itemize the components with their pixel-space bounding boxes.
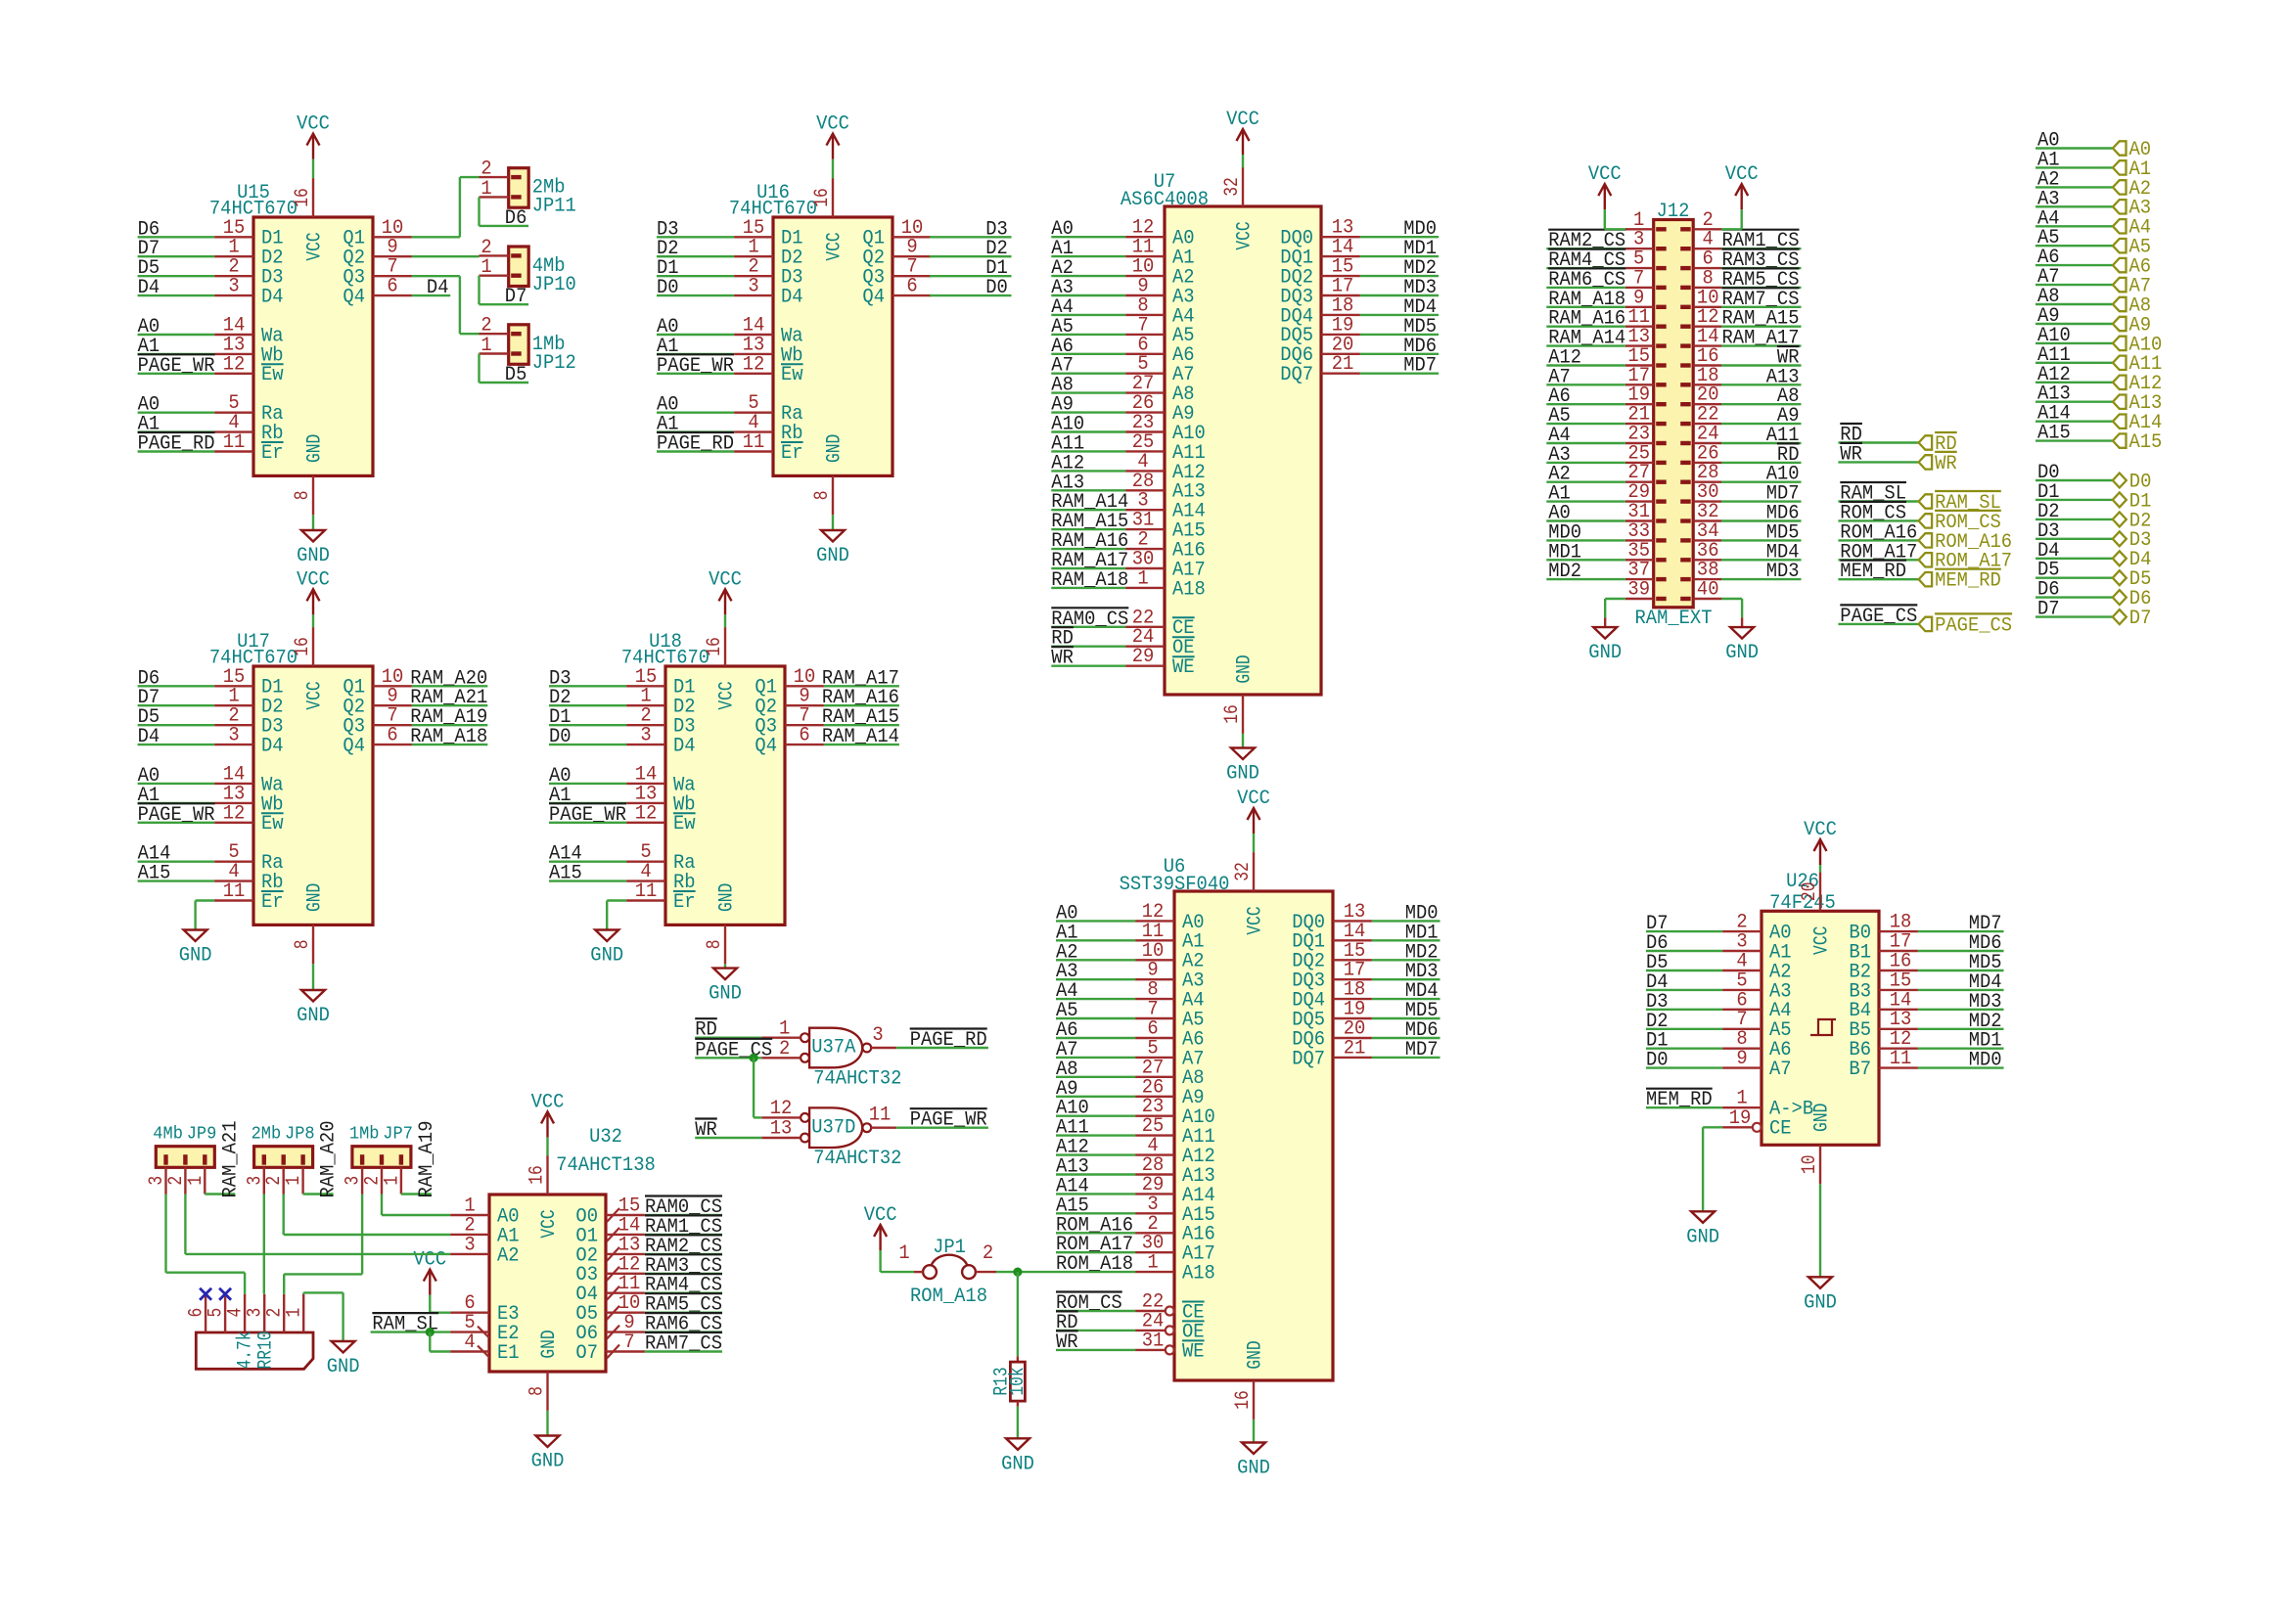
label PAGE_WR	[138, 354, 215, 378]
svg-text:D5: D5	[505, 364, 527, 386]
svg-text:13: 13	[770, 1118, 793, 1141]
svg-text:VCC: VCC	[538, 1209, 561, 1238]
svg-text:Er: Er	[673, 891, 696, 914]
label MD6	[1403, 336, 1437, 358]
svg-text:11: 11	[223, 880, 246, 903]
wire PAGE_WR to U16.Ew	[657, 373, 734, 375]
wire PAGE_WR to U17.Ew	[138, 822, 215, 824]
svg-text:3: 3	[640, 725, 651, 747]
wire A14 to U17.Ra	[138, 861, 215, 863]
svg-text:1: 1	[283, 1176, 305, 1186]
register file U17 74HCT670	[209, 627, 412, 964]
label MD2	[1403, 257, 1437, 280]
junction ROM_A18 node	[1013, 1268, 1022, 1277]
wire D4 to U26.A3	[1646, 989, 1722, 991]
svg-text:11: 11	[869, 1105, 892, 1127]
wire U6.DQ0 MD0	[1372, 920, 1441, 922]
wire D3 to U26.A4	[1646, 1009, 1722, 1011]
svg-text:RAM_A21: RAM_A21	[219, 1121, 242, 1198]
hierarchical label RAM_SL	[1919, 491, 2001, 515]
svg-text:21: 21	[1344, 1037, 1366, 1060]
svg-text:VCC: VCC	[303, 681, 326, 709]
label A6	[1051, 336, 1074, 358]
wire U15.Q4 D4	[412, 294, 450, 296]
label PAGE_RD	[657, 432, 734, 456]
wire U26.B0 MD7	[1918, 930, 2004, 932]
wire RD to U6.OE	[1056, 1330, 1135, 1331]
label RAM5_CS	[645, 1293, 722, 1317]
svg-text:Q4: Q4	[755, 736, 777, 758]
wire RAM4_CS to J12 pin 5	[1546, 267, 1625, 269]
svg-text:U37D: U37D	[811, 1116, 855, 1139]
svg-text:O7: O7	[575, 1342, 598, 1365]
label A14 with wire	[2036, 403, 2113, 426]
label PAGE_RD	[910, 1029, 987, 1053]
label D3	[985, 218, 1008, 241]
power VCC at U6 pin 32	[1237, 788, 1270, 891]
wire U7.DQ7 MD7	[1360, 373, 1439, 375]
wire A14 to U18.Ra	[549, 861, 626, 863]
wire U37D pin 11 PAGE_WR	[896, 1126, 988, 1128]
no-connect RR10 pin 6	[200, 1288, 211, 1300]
label D5	[505, 364, 527, 386]
wire A8 to U7.A8	[1051, 391, 1125, 393]
label RAM_A18	[1548, 289, 1625, 311]
svg-text:VCC: VCC	[823, 232, 846, 260]
svg-text:16: 16	[1221, 704, 1244, 724]
svg-text:DQ7: DQ7	[1292, 1048, 1325, 1070]
wire U6.DQ2 MD2	[1372, 959, 1441, 961]
svg-text:D4: D4	[261, 736, 284, 758]
label A2 with wire	[2036, 168, 2113, 191]
wire U17.Q1 RAM_A20	[412, 685, 487, 687]
wire A6 to U7.A6	[1051, 353, 1125, 355]
label RAM1_CS	[1722, 230, 1800, 253]
wire A3 to U6.A3	[1056, 978, 1135, 980]
label A6	[1056, 1019, 1078, 1042]
svg-text:32: 32	[1221, 177, 1244, 197]
svg-text:A2: A2	[497, 1244, 520, 1267]
label PAGE_CS	[695, 1039, 772, 1062]
wire D6 to U17.D1	[138, 685, 215, 687]
svg-text:AS6C4008: AS6C4008	[1121, 189, 1209, 211]
label D4	[138, 277, 160, 299]
svg-text:WR: WR	[1840, 443, 1862, 466]
wire J12 pin 18 A13	[1721, 383, 1802, 385]
svg-text:VCC: VCC	[864, 1204, 897, 1227]
wire J12 pin 14 RAM_A17	[1721, 344, 1802, 346]
wire A0 to U7.A0	[1051, 236, 1125, 238]
label D0	[985, 277, 1008, 299]
svg-text:A18: A18	[1182, 1263, 1215, 1286]
svg-text:GND: GND	[531, 1451, 565, 1473]
svg-text:6: 6	[387, 725, 397, 747]
wire ROM_A16 to U6.A16	[1056, 1232, 1135, 1234]
svg-text:GND: GND	[823, 434, 846, 463]
wire JP9 pin 1 RAM_A21	[205, 1193, 235, 1195]
svg-text:VCC: VCC	[1244, 906, 1266, 934]
memory U7 AS6C4008	[1121, 171, 1360, 695]
label D2	[1646, 1011, 1669, 1033]
label RAM_A15	[1722, 308, 1800, 331]
jumper JP7 1Mb	[343, 1124, 413, 1195]
label PAGE_CS with wire	[1838, 605, 1918, 628]
label D1	[657, 257, 679, 280]
svg-text:MEM_RD: MEM_RD	[1935, 570, 2001, 593]
wire D7 to U26.A0	[1646, 930, 1722, 932]
svg-text:JP11: JP11	[532, 196, 576, 218]
label PAGE_WR	[910, 1108, 987, 1132]
label RAM_A16	[822, 687, 899, 709]
svg-text:Ew: Ew	[261, 813, 284, 835]
svg-text:JP12: JP12	[532, 352, 576, 375]
label MD7	[1405, 1039, 1439, 1061]
svg-text:A7: A7	[1769, 1059, 1792, 1081]
wire D0 to U16.D4	[657, 294, 734, 296]
hierarchical label A12	[2113, 373, 2162, 395]
wire A2 to J12 pin 27	[1546, 481, 1625, 483]
label D6	[138, 667, 160, 690]
svg-text:GND: GND	[590, 945, 623, 968]
svg-text:VCC: VCC	[531, 1091, 565, 1113]
wire U7.DQ3 MD3	[1360, 294, 1439, 296]
label A13	[1766, 366, 1800, 388]
svg-text:9: 9	[1736, 1048, 1747, 1070]
wire A13 to U6.A13	[1056, 1173, 1135, 1175]
wire PAGE_RD to U15.Er	[138, 450, 215, 452]
wire A4 to J12 pin 23	[1546, 442, 1625, 444]
hierarchical label D5	[2113, 568, 2152, 591]
svg-text:SST39SF040: SST39SF040	[1120, 874, 1230, 896]
svg-text:CE: CE	[1769, 1118, 1792, 1141]
label A0	[549, 765, 572, 788]
wire J12 pin 8 RAM5_CS	[1721, 287, 1802, 289]
power VCC at U18 pin 16	[709, 568, 742, 627]
svg-text:RAM_EXT: RAM_EXT	[1635, 608, 1713, 630]
wire A3 to U7.A3	[1051, 294, 1125, 296]
svg-text:6: 6	[799, 725, 809, 747]
svg-text:D6: D6	[505, 207, 527, 230]
svg-text:MEM_RD: MEM_RD	[1646, 1089, 1713, 1111]
transceiver U26 74F245	[1722, 871, 1918, 1184]
label A1	[1548, 483, 1571, 506]
wire JP7 pin 2 to U32.A0	[382, 1195, 450, 1216]
label A12	[1051, 452, 1084, 474]
wire U16.Q1 D3	[930, 236, 1012, 238]
wire U26.B2 MD5	[1918, 970, 2004, 971]
hierarchical label A11	[2113, 353, 2162, 376]
wire D1 to U18.D3	[549, 724, 626, 726]
wire JP9 pin 2 to U32.A2	[185, 1195, 450, 1254]
wire U6.DQ5 MD5	[1372, 1017, 1441, 1019]
svg-text:GND: GND	[1686, 1226, 1719, 1248]
label A13	[1056, 1156, 1089, 1179]
wire U26.B3 MD4	[1918, 989, 2004, 991]
label MD2	[1548, 561, 1581, 583]
label D7	[138, 238, 160, 260]
svg-text:Er: Er	[261, 442, 284, 465]
label RAM4_CS	[1548, 249, 1625, 273]
svg-text:3: 3	[872, 1024, 883, 1047]
wire A11 to U6.A11	[1056, 1134, 1135, 1136]
svg-text:1: 1	[1147, 1252, 1158, 1275]
label PAGE_WR	[549, 803, 626, 827]
svg-text:16: 16	[1232, 1390, 1255, 1410]
label A13	[1051, 472, 1084, 494]
power VCC at U17 pin 16	[297, 568, 330, 627]
wire U37A pin 3 PAGE_RD	[896, 1047, 988, 1049]
svg-text:PAGE_RD: PAGE_RD	[657, 433, 734, 456]
label A2	[1051, 257, 1074, 280]
connector J12 RAM_EXT	[1625, 201, 1721, 630]
label RAM_SL	[372, 1313, 438, 1336]
wire A6 to J12 pin 19	[1546, 403, 1625, 405]
wire U32.O1 RAM1_CS	[645, 1234, 722, 1236]
label D3 with wire	[2036, 520, 2113, 543]
wire U7.DQ5 MD5	[1360, 334, 1439, 336]
wire U18.Q4 RAM_A14	[824, 744, 899, 745]
label MEM_RD with wire	[1838, 561, 1918, 584]
memory U6 SST39SF040	[1120, 856, 1372, 1380]
label A15	[1056, 1195, 1089, 1217]
svg-text:D4: D4	[138, 726, 160, 748]
wire A4 to U7.A4	[1051, 314, 1125, 316]
wire U26.B7 MD0	[1918, 1066, 2004, 1068]
power GND at U6 pin 16	[1237, 1380, 1270, 1480]
label ROM_A16 with wire	[1838, 521, 1918, 544]
label A10	[1051, 414, 1084, 436]
label MD7	[1969, 913, 2002, 935]
power GND at U32 pin 8	[531, 1411, 565, 1473]
junction PAGE_CS node	[750, 1054, 758, 1062]
resistor R13 10k	[990, 1272, 1030, 1438]
svg-text:A18: A18	[1172, 578, 1206, 601]
solder jumper JP1	[898, 1237, 996, 1308]
svg-text:WR: WR	[1935, 453, 1957, 475]
wire A15 to U17.Rb	[138, 880, 215, 881]
svg-text:2: 2	[779, 1038, 790, 1060]
svg-text:6: 6	[387, 276, 397, 298]
hierarchical label WR	[1919, 452, 1957, 475]
wire A1 to U18.Wb	[549, 802, 626, 804]
svg-text:4Mb: 4Mb	[153, 1124, 183, 1145]
svg-text:8: 8	[811, 491, 834, 501]
wire A8 to U6.A8	[1056, 1076, 1135, 1078]
label RD	[1051, 627, 1074, 651]
label RAM_A17	[1722, 328, 1800, 350]
svg-text:A15: A15	[138, 863, 171, 885]
label MD3	[1405, 961, 1439, 983]
power GND at J12 pin 39	[1588, 599, 1625, 664]
label ROM_A16	[1056, 1214, 1133, 1237]
svg-text:PAGE_WR: PAGE_WR	[138, 804, 215, 827]
label A10	[1766, 464, 1800, 486]
wire D5 to U17.D3	[138, 724, 215, 726]
label RAM_A20 (vertical)	[318, 1121, 341, 1198]
label MD3	[1403, 277, 1437, 299]
svg-text:16: 16	[292, 188, 314, 207]
label MD5	[1403, 316, 1437, 338]
wire D1 to U16.D3	[657, 275, 734, 277]
svg-text:12: 12	[223, 353, 246, 376]
label A5	[1056, 1000, 1078, 1022]
svg-text:VCC: VCC	[1725, 163, 1759, 186]
svg-text:VCC: VCC	[816, 113, 849, 136]
wire PAGE_RD to U16.Er	[657, 450, 734, 452]
wire J12 pin 24 A11	[1721, 442, 1802, 444]
label RAM6_CS	[1548, 268, 1625, 292]
wire RAM0_CS to U7.CE	[1051, 626, 1125, 628]
svg-text:WE: WE	[1172, 656, 1195, 679]
svg-text:ROM_A18: ROM_A18	[910, 1286, 987, 1308]
label RAM_SL with wire	[1838, 482, 1918, 506]
wire A0 to U6.A0	[1056, 920, 1135, 922]
label RAM4_CS	[645, 1274, 722, 1297]
svg-text:JP1: JP1	[933, 1237, 966, 1259]
label WR	[1777, 346, 1800, 370]
svg-text:PAGE_CS: PAGE_CS	[695, 1039, 772, 1061]
label RAM0_CS	[1051, 608, 1128, 631]
wire A0 to U16.Wa	[657, 334, 734, 336]
power VCC at U7 pin 32	[1226, 109, 1259, 206]
wire A0 to J12 pin 31	[1546, 519, 1625, 521]
label A12 with wire	[2036, 364, 2113, 386]
label RAM2_CS	[1548, 230, 1625, 253]
svg-text:GND: GND	[1810, 1104, 1833, 1132]
wire A2 to U6.A2	[1056, 959, 1135, 961]
svg-text:B7: B7	[1849, 1059, 1871, 1081]
hierarchical label D0	[2113, 471, 2152, 493]
svg-text:2Mb: 2Mb	[252, 1124, 282, 1145]
label WR	[1056, 1331, 1078, 1354]
wire MD0 to J12 pin 33	[1546, 539, 1625, 541]
label A4	[1051, 296, 1074, 319]
label RAM_A16	[1548, 308, 1625, 331]
wire D4 to U17.D4	[138, 744, 215, 745]
wire U18.Q3 RAM_A15	[824, 724, 899, 726]
wire U18.Q2 RAM_A16	[824, 704, 899, 706]
label A10	[1056, 1098, 1089, 1120]
wire RAM_A14 to J12 pin 13	[1546, 344, 1625, 346]
svg-text:10k: 10k	[1007, 1367, 1030, 1395]
wire J12 pin 28 A10	[1721, 481, 1802, 483]
svg-text:1: 1	[185, 1176, 207, 1186]
label A1	[1051, 238, 1074, 260]
label D7	[138, 687, 160, 709]
wire A5 to U6.A5	[1056, 1017, 1135, 1019]
svg-text:JP8: JP8	[285, 1124, 315, 1145]
wire WR to U6.WE	[1056, 1349, 1135, 1351]
label D7	[1646, 913, 1669, 935]
hierarchical label A1	[2113, 158, 2151, 181]
power GND at U17 pin 11	[179, 930, 212, 968]
hierarchical label A14	[2113, 412, 2162, 434]
svg-text:GND: GND	[179, 945, 212, 968]
label RAM0_CS	[645, 1196, 722, 1220]
wire MD2 to J12 pin 37	[1546, 578, 1625, 580]
wire U15.Q2 to JP10 pin 2	[412, 255, 480, 257]
svg-text:D7: D7	[2129, 608, 2152, 630]
wire RAM_A16 to J12 pin 11	[1546, 326, 1625, 328]
or-gate U37A 74AHCT32	[761, 1017, 901, 1090]
svg-text:11: 11	[635, 880, 658, 903]
label A1	[549, 785, 572, 807]
svg-text:PAGE_CS: PAGE_CS	[1935, 614, 2012, 637]
wire A1 to U6.A1	[1056, 939, 1135, 941]
wire J12 pin 12 RAM_A15	[1721, 326, 1802, 328]
label D4 with wire	[2036, 540, 2113, 563]
label RAM1_CS	[645, 1215, 722, 1239]
wire D1 to U26.A6	[1646, 1047, 1722, 1049]
hierarchical label D3	[2113, 529, 2152, 552]
svg-text:GND: GND	[1226, 763, 1259, 786]
label A1	[1056, 922, 1078, 944]
svg-text:VCC: VCC	[1233, 221, 1256, 249]
svg-text:D4: D4	[261, 287, 284, 309]
svg-text:WR: WR	[1051, 648, 1074, 670]
wire MD1 to J12 pin 35	[1546, 559, 1625, 561]
label A14	[549, 843, 582, 866]
wire J12 pin 26 RD	[1721, 462, 1802, 464]
label A1 with wire	[2036, 149, 2113, 171]
label A5	[1051, 316, 1074, 338]
label A1	[138, 414, 160, 436]
wire A12 to J12 pin 15	[1546, 364, 1625, 366]
label D7	[505, 286, 527, 308]
label MD1	[1548, 541, 1581, 564]
label MD1	[1405, 922, 1439, 944]
svg-text:1: 1	[480, 256, 491, 279]
jumper JP8 2Mb	[244, 1124, 314, 1195]
svg-text:D7: D7	[2037, 599, 2060, 621]
label RAM_A14	[822, 726, 899, 748]
label A3	[1056, 961, 1078, 983]
wire RAM_A17 to U7.A17	[1051, 567, 1125, 569]
svg-text:GND: GND	[297, 1005, 330, 1027]
power VCC at J12 pin 1	[1588, 163, 1625, 229]
label D4	[427, 277, 449, 299]
label D1	[985, 257, 1008, 280]
label RAM_A16	[1051, 530, 1128, 553]
svg-text:39: 39	[1627, 579, 1650, 602]
label A0	[138, 316, 160, 338]
wire D7 to U15.D2	[138, 255, 215, 257]
wire RD to U7.OE	[1051, 646, 1125, 648]
label RAM_A19 (vertical)	[416, 1121, 438, 1198]
svg-text:21: 21	[1332, 353, 1354, 376]
label A4 with wire	[2036, 207, 2113, 230]
wire U7.DQ0 MD0	[1360, 236, 1439, 238]
label A11	[1051, 432, 1084, 455]
wire RAM_A18 to U7.A18	[1051, 587, 1125, 589]
wire A10 to U6.A10	[1056, 1114, 1135, 1116]
svg-text:PAGE_RD: PAGE_RD	[138, 433, 215, 456]
label A15	[549, 863, 582, 885]
wire ROM_A17 to U6.A17	[1056, 1251, 1135, 1253]
svg-text:8: 8	[292, 491, 314, 501]
wire U32.O2 RAM2_CS	[645, 1253, 722, 1255]
svg-text:D0: D0	[549, 726, 572, 748]
svg-text:MD2: MD2	[1548, 561, 1581, 583]
svg-text:11: 11	[1890, 1048, 1912, 1070]
wire RAM_A18 to J12 pin 9	[1546, 306, 1625, 308]
label D4	[1646, 971, 1669, 994]
wire J12 pin 30 MD7	[1721, 500, 1802, 502]
wire A5 to U7.A5	[1051, 334, 1125, 336]
wire ROM_CS to U6.CE	[1056, 1310, 1135, 1312]
wire J12 pin 6 RAM3_CS	[1721, 267, 1802, 269]
label D1	[549, 706, 572, 729]
